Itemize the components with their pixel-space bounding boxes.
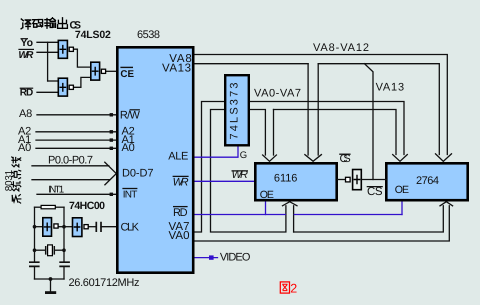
svg-text:G: G: [240, 150, 247, 161]
svg-text:INT: INT: [123, 189, 138, 200]
svg-text:WR: WR: [18, 50, 34, 61]
resistor stubs: [35, 206, 41, 208]
svg-text:WR: WR: [173, 177, 189, 189]
svg-text:CE: CE: [120, 69, 134, 80]
wire U1C output to CE: [106, 70, 117, 72]
wire VA0-VA7 ribbon toward 2764: [274, 110, 397, 155]
wire VA0-VA7 ribbon bottom right: [273, 110, 275, 156]
wire VA0 pin to 2764 bottom arrow right shaft: [194, 206, 449, 241]
svg-text:2: 2: [290, 282, 297, 296]
wire Yo branch vertical: [47, 42, 49, 81]
svg-text:2764: 2764: [416, 175, 439, 187]
wire A8: [37, 114, 117, 116]
wire P0 bus lower: [32, 179, 110, 181]
wire 6116 CS to bubble: [337, 179, 345, 181]
arrowhead VA0-VA7 into 6116: [263, 155, 277, 161]
resistor R1: [41, 205, 55, 208]
wire 6116 bottom arrow right shaft: [293, 206, 295, 232]
wire inverter to 2764 CS: [362, 179, 388, 181]
wire VIDEO: [194, 257, 218, 259]
svg-text:CS: CS: [367, 186, 383, 198]
pin terminal squares: [110, 113, 113, 196]
wire RD right segment: [294, 214, 402, 216]
svg-text:A8: A8: [19, 108, 32, 120]
label 系统总线 rotated: [12, 157, 21, 203]
gate A input wire: [35, 226, 43, 228]
wire Yo input: [37, 41, 58, 43]
wire OE drop 2764: [401, 201, 403, 215]
gate A 74HC00: [43, 218, 58, 237]
ground stem: [50, 279, 52, 292]
label 图2 red: [280, 282, 289, 293]
gate B out to cap: [88, 226, 95, 228]
wire VA13 bus line left piece: [194, 63, 308, 65]
svg-text:P0.0-P0.7: P0.0-P0.7: [48, 155, 93, 167]
capacitor series C3: [96, 222, 101, 232]
wire U1A output to U1C: [74, 49, 91, 67]
wire RD input: [37, 91, 58, 93]
svg-text:26.601712MHz: 26.601712MHz: [69, 277, 140, 289]
chip 74LS373: [225, 75, 249, 145]
wire arrow shaft into 6116 left: [307, 64, 309, 155]
crystal wires: [35, 249, 46, 251]
gate U1A 74LS02 NOR: [58, 40, 73, 58]
wire ALE to G of 74LS373: [194, 147, 238, 157]
junction dots: [33, 225, 66, 281]
arrowhead VA8-VA13 into 6116: [305, 155, 322, 162]
gate U1B 74LS02 NOR: [58, 78, 73, 96]
osc right rail: [63, 207, 65, 262]
svg-text:6116: 6116: [274, 172, 298, 184]
svg-text:RD: RD: [20, 88, 34, 99]
svg-text:6538: 6538: [137, 29, 160, 41]
svg-text:A0: A0: [122, 142, 135, 154]
svg-text:INT1: INT1: [48, 185, 64, 196]
osc left cap to bottom: [34, 267, 36, 279]
gate A out to gate B: [58, 226, 72, 228]
svg-text:VA8-VA12: VA8-VA12: [313, 42, 369, 54]
svg-text:74HC00: 74HC00: [69, 200, 105, 212]
gate B 74HC00: [73, 218, 89, 237]
svg-text:OE: OE: [395, 184, 409, 196]
bottom wire: [35, 278, 65, 280]
arrowhead VA8-VA12 into 2764: [436, 154, 452, 162]
arrowhead up into 6116 bottom: [283, 202, 298, 206]
wire arrow shaft into 6116 right: [317, 64, 319, 155]
P0 bus arrowhead: [105, 162, 117, 185]
wire VA0-VA7 ribbon bottom left: [250, 110, 265, 156]
wire RD left segment: [194, 214, 285, 216]
wire WR to 6116: [194, 180, 255, 182]
svg-text:R/W: R/W: [120, 110, 141, 122]
svg-text:74LS373: 74LS373: [229, 83, 241, 140]
wire A2: [36, 131, 117, 133]
wire VA13 bus line right piece: [318, 64, 439, 155]
wire INT1: [37, 193, 117, 195]
wire Yo branch to gate U1B: [48, 80, 58, 82]
svg-text:74LS02: 74LS02: [75, 29, 111, 41]
wire A0: [36, 147, 117, 149]
VIDEO arrowhead: [209, 255, 214, 259]
wire CLK from capacitor: [101, 226, 117, 228]
wire VA0-VA7 ribbon top: [250, 102, 404, 155]
wire WR input: [37, 51, 58, 53]
svg-text:VA0: VA0: [169, 230, 190, 242]
svg-text:D0-D7: D0-D7: [122, 168, 154, 180]
gate U1C 74LS02 NOR: [91, 62, 106, 80]
wire A1: [36, 139, 117, 141]
svg-text:A0: A0: [18, 142, 31, 154]
chip 6116: [255, 163, 336, 200]
svg-text:VA13: VA13: [376, 82, 405, 94]
ground bar: [45, 291, 56, 294]
chip 2764: [386, 163, 467, 200]
osc right cap to bottom: [63, 267, 65, 279]
wire 74LS373 to bottom bus: [211, 110, 286, 233]
svg-text:RD: RD: [173, 207, 188, 219]
crystal Y1: [46, 245, 55, 256]
svg-text:VA13: VA13: [162, 62, 191, 74]
svg-text:ALE: ALE: [168, 151, 188, 163]
text 译码输出CS: [21, 18, 67, 29]
capacitor C1: [29, 262, 40, 266]
oscillator left rail: [35, 207, 96, 292]
wire OE drop 6116: [265, 201, 267, 215]
chip 6538: [117, 47, 193, 272]
arrowhead up into 2764 bottom: [440, 202, 453, 206]
svg-text:VA0-VA7: VA0-VA7: [254, 88, 301, 100]
wire U1B output to U1C: [74, 77, 91, 87]
wire P0 bus upper: [32, 165, 109, 167]
capacitor C2: [59, 262, 70, 266]
wire bottom bus to 2764 arrow left shaft: [294, 206, 444, 232]
wire VA7 pin to 74LS373 input: [194, 102, 225, 233]
arrowhead VA0-VA7 into 2764: [393, 155, 408, 162]
svg-text:VIDEO: VIDEO: [220, 251, 251, 263]
svg-text:CLK: CLK: [121, 222, 140, 234]
svg-text:OE: OE: [260, 189, 274, 201]
wire VA8 bus line top: [194, 55, 447, 155]
inverter gate CS: [346, 170, 362, 190]
wire VA13 diagonal branch: [365, 64, 374, 180]
